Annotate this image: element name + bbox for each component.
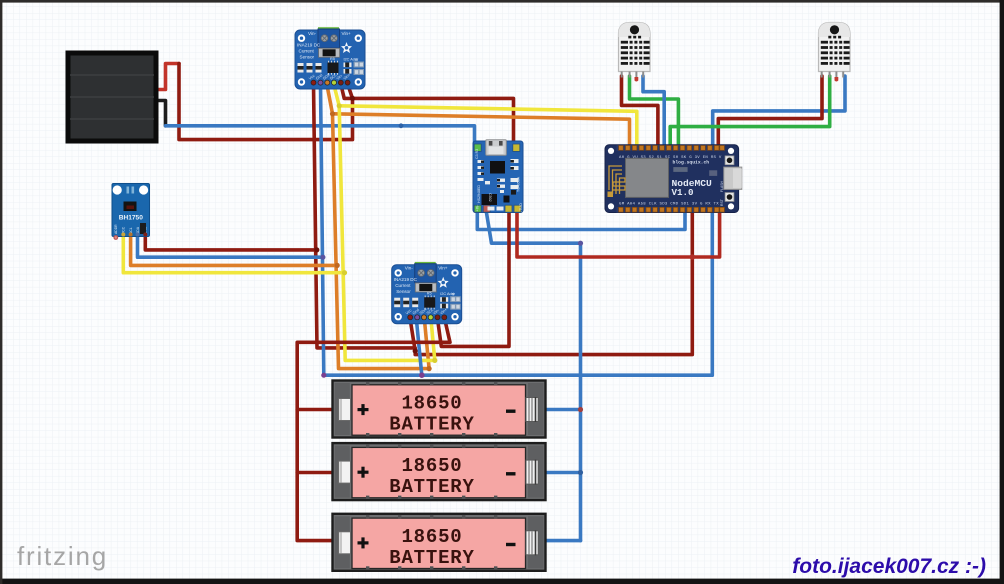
usb connector (724, 167, 742, 189)
svg-text:R5: R5 (330, 57, 335, 61)
svg-text:-TUO: -TUO (519, 203, 523, 212)
terminal block (318, 29, 340, 48)
node gnd corner dot (321, 373, 326, 378)
wire solar panel + to junction (bright red) (154, 64, 179, 90)
wire SCL : U1 pin4 down to U2 SCL (yellow) (334, 84, 435, 360)
wire solar + run to INA219 U1 Vin+ node (dark red) (179, 64, 353, 140)
svg-text:Sensor: Sensor (300, 55, 315, 60)
silkscreen text (297, 31, 358, 62)
microcontroller NodeMCU V1.0 (605, 145, 742, 213)
antenna (609, 166, 625, 194)
pin pads (113, 235, 118, 240)
svg-text:BH1750: BH1750 (119, 215, 144, 222)
BH1750 light sensor U3 (112, 184, 150, 240)
node scl corner dot (432, 358, 437, 363)
charger module TP4056 U6 (473, 140, 523, 213)
node BH gnd junction (320, 255, 325, 260)
node SCL bend (337, 103, 342, 108)
node solar/Vin+ junction (350, 96, 355, 101)
svg-text:C3 R3: C3 R3 (475, 149, 479, 159)
svg-text:GM A04 A58 CLK SD3 CMD SD1 3V: GM A04 A58 CLK SD3 CMD SD1 3V G RX TX (619, 203, 719, 207)
svg-text:Vin+: Vin+ (342, 31, 352, 36)
wire DHT2 gnd to NodeMCU (blue) (713, 76, 845, 151)
svg-text:RST: RST (720, 199, 724, 206)
wire net GND : U1 pin2 down, across, to NodeMCU GND (blue) (321, 84, 713, 375)
wire U1 Vin- to TP4056 IN+ (dark red) (341, 84, 514, 150)
battery holder BT2 18650 (333, 443, 546, 500)
svg-text:18650: 18650 (401, 393, 462, 415)
wire battery2 - stub (blue) (538, 471, 581, 475)
solar panel PV1 (68, 53, 156, 141)
svg-text:blog.squix.ch: blog.squix.ch (673, 159, 710, 165)
svg-text:fritzing: fritzing (17, 541, 108, 571)
node blue bend marker (399, 123, 404, 128)
svg-text:+IN-: +IN- (476, 204, 480, 212)
op-amp breakout INA219 U2 (current sensor) (392, 262, 462, 324)
node sda corner dot (427, 366, 432, 371)
pin pads (311, 80, 350, 85)
wire DHT1 data to NodeMCU (dark red) (622, 76, 658, 151)
svg-text:Vin-: Vin- (308, 31, 317, 36)
esp module (626, 158, 669, 197)
border frame (decorative) (0, 0, 1004, 3)
node BH vcc junction (314, 247, 319, 252)
node Vin junction (690, 254, 696, 260)
wire BH1750 SDA (orange) (131, 233, 338, 265)
wire U1 Vin+ pin stub (dark red) (348, 84, 353, 98)
svg-text:Current: Current (299, 49, 315, 54)
wire battery1 + stub (dark red) (297, 408, 336, 412)
wire DHT2 data to NodeMCU (dark red) (718, 76, 822, 151)
wire BH1750 VCC (dark red) (145, 233, 316, 250)
top pin header (617, 145, 726, 151)
op-amp breakout INA219 U1 (current sensor) (295, 27, 365, 89)
node SDA bend (330, 111, 335, 116)
wire SDA branch to NodeMCU D2 (orange) (333, 114, 630, 151)
wire U2 pin2 stub to GND net (blue) (416, 320, 421, 376)
pin labels (308, 72, 352, 80)
wire SCL branch to NodeMCU D1 (yellow) (339, 106, 637, 151)
DHT22 sensor U4 (619, 23, 651, 82)
smd row (298, 57, 365, 75)
node battery blue bend (578, 241, 583, 246)
wire SDA : U1 pin3 down to U2 SDA (orange) (327, 84, 429, 369)
svg-text:BATTERY: BATTERY (389, 414, 474, 436)
DHT22 sensor U5 (819, 23, 851, 82)
svg-text:foto.ijacek007.cz :-): foto.ijacek007.cz :-) (792, 555, 986, 578)
wire DHT2 vcc to NodeMCU (green) (670, 76, 830, 151)
wire TP4056 B- to NodeMCU GND pin (blue) (477, 208, 685, 230)
wire TP4056 OUT- to U2 Vin- (dark red) (438, 208, 509, 346)
svg-text:C502: C502 (488, 193, 492, 202)
svg-text:V1.0: V1.0 (672, 187, 694, 198)
wire battery1 - stub (blue) (538, 408, 581, 412)
wire net V+ : U1 pin1 down, across, to NodeMCU Vin (dark red) (314, 84, 693, 355)
node BH scl junction (342, 270, 347, 275)
corner pads (474, 144, 521, 212)
node U2 pin2 junction (419, 372, 425, 378)
battery holder BT1 18650 (333, 381, 546, 438)
buttons (725, 156, 734, 165)
micro-usb (486, 140, 507, 156)
adafruit star (341, 42, 352, 53)
unconnected pin cap (635, 77, 639, 82)
wire BH1750 GND (blue) (138, 233, 323, 257)
node U2 pin1 junction (413, 348, 418, 353)
svg-text:TC4056A: TC4056A (517, 176, 521, 192)
svg-text:ADDR: ADDR (114, 224, 118, 234)
wire U2 pin1 stub to V+ net (dark red) (410, 320, 415, 352)
wire DHT1 gnd to NodeMCU (blue) (643, 76, 664, 151)
shunt resistor (319, 48, 340, 57)
svg-text:FLASH: FLASH (720, 181, 724, 192)
svg-text:HS2948ED: HS2948ED (477, 185, 481, 203)
node BH sda junction (335, 263, 340, 268)
ICs (490, 161, 505, 174)
wire battery3 - stub (blue) (538, 539, 581, 543)
svg-text:INA219 DC: INA219 DC (297, 43, 321, 48)
node battery1 - junction (578, 407, 583, 412)
wire TP4056 B+ to battery rail - (blue) (486, 208, 581, 541)
wire DHT1 vcc to NodeMCU (green) (630, 76, 679, 151)
junction dots (314, 96, 695, 475)
battery holder BT3 18650 (333, 514, 546, 571)
wire solar panel - pigtail (black) (154, 101, 166, 126)
wire U2 Vin+ to battery + rail (dark red) (297, 320, 450, 541)
svg-text:I2C Addr: I2C Addr (344, 58, 360, 62)
wire TP4056 OUT+ to NodeMCU Vin pin (bright red) (517, 208, 720, 257)
pin legs (621, 72, 623, 78)
smd bits (478, 159, 519, 211)
wire battery2 + stub (dark red) (297, 471, 336, 475)
node battery2 - junction (578, 470, 583, 475)
wire solar - to TP4056 IN- (blue) (166, 126, 475, 150)
wire BH1750 SCL (yellow) (123, 233, 344, 273)
